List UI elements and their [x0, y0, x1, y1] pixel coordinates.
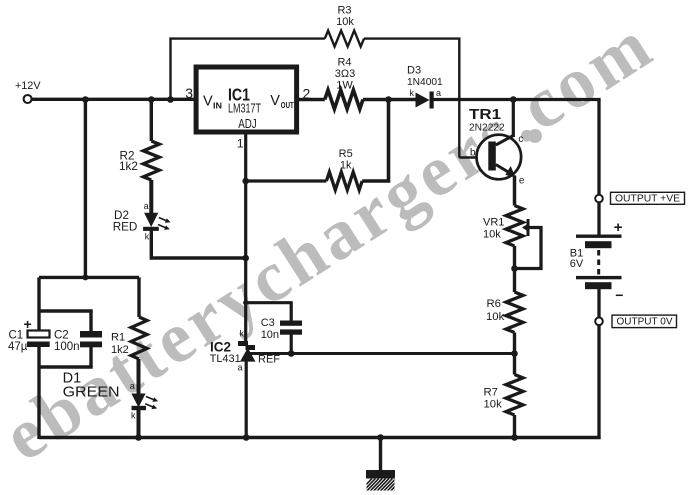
diode D3 1N4001 — [416, 93, 430, 108]
svg-text:R3: R3 — [337, 5, 351, 17]
wire C3 bottom lead — [290, 334, 293, 354]
svg-text:1W: 1W — [336, 80, 353, 92]
wire VR1 to R6 — [513, 246, 516, 292]
svg-text:1k2: 1k2 — [111, 344, 129, 356]
wire IC2 anode to bottom rail — [245, 361, 248, 439]
wire VR1 wiper loop — [515, 228, 542, 269]
terminal OUTPUT +VE — [595, 195, 603, 203]
resistor R5 1k — [326, 172, 362, 190]
LED D2 RED — [144, 213, 158, 227]
battery B1 6V — [576, 235, 622, 238]
wire R2 top lead — [150, 100, 153, 142]
svg-text:1k2: 1k2 — [119, 160, 138, 173]
wire R5 row — [246, 179, 327, 182]
wire C2 top lead — [89, 311, 92, 332]
wire right rail: +VE terminal to battery — [597, 203, 600, 236]
svg-text:e: e — [519, 176, 525, 187]
svg-text:C1: C1 — [9, 330, 24, 342]
resistor R6 10k — [506, 292, 523, 333]
svg-text:IN: IN — [213, 102, 222, 111]
capacitor C1 47u electrolytic — [28, 331, 50, 338]
wire D3 to right rail corner — [434, 100, 600, 195]
svg-text:R7: R7 — [484, 387, 498, 399]
node: IC2 anode to bottom rail — [243, 434, 250, 441]
wire R3 branch: up, across, down to TR1 base — [171, 39, 325, 100]
svg-text:a: a — [130, 381, 135, 391]
svg-text:TR1: TR1 — [469, 106, 501, 123]
IC1 LM317T box — [196, 67, 297, 132]
node: REF to R6/R7 — [511, 350, 518, 357]
svg-text:k: k — [131, 411, 136, 421]
svg-text:1k: 1k — [340, 160, 352, 172]
LED D1 GREEN — [131, 394, 145, 408]
wire bottom rail — [39, 436, 601, 439]
node: D1 to bottom rail — [135, 434, 142, 441]
wire R5 right and up to R4/D3 junction — [362, 100, 388, 182]
svg-text:1: 1 — [237, 137, 244, 151]
node: collector to output rail — [510, 96, 517, 103]
svg-text:V: V — [203, 94, 213, 110]
svg-text:10n: 10n — [261, 329, 279, 341]
svg-text:R5: R5 — [339, 148, 353, 160]
svg-text:D3: D3 — [407, 65, 421, 77]
wire C3 top loop — [246, 303, 292, 321]
svg-text:b: b — [470, 148, 476, 159]
resistor R3 10k — [325, 31, 364, 47]
svg-text:GREEN: GREEN — [63, 384, 120, 401]
svg-text:TL431: TL431 — [210, 353, 241, 365]
wire C1-C2 bottom bar — [39, 365, 93, 368]
svg-text:2N2222: 2N2222 — [469, 123, 505, 134]
svg-text:ADJ: ADJ — [238, 117, 257, 131]
wire IC1 ADJ vertical — [244, 132, 247, 342]
svg-text:c: c — [518, 134, 523, 145]
svg-text:+: + — [24, 316, 32, 332]
svg-text:10k: 10k — [486, 311, 505, 323]
node: R4/D3 to R5 — [385, 96, 392, 103]
wire left vertical lower (C1 to bottom rail) — [37, 347, 40, 440]
resistor R7 10k — [506, 375, 523, 416]
wire VOUT to R4 — [297, 98, 325, 101]
wire battery bottom to 0V terminal — [597, 289, 600, 318]
node: rail to C1/C2/R1 feed — [82, 96, 89, 103]
svg-text:k: k — [145, 232, 150, 242]
resistor R2 1k2 — [143, 141, 159, 180]
wire TR1 base horizontal — [459, 156, 488, 159]
VR1 wiper arrow — [527, 219, 530, 236]
capacitor C3 10n — [280, 321, 302, 326]
wire TR1 collector vertical — [512, 100, 515, 138]
svg-text:10k: 10k — [336, 16, 354, 28]
watermark ebatterychargers.com — [528, 129, 542, 143]
TR1 collector diagonal — [496, 136, 514, 146]
wire R4 to D3 — [363, 98, 416, 102]
node: ADJ to R5 — [242, 178, 249, 185]
svg-text:C3: C3 — [261, 317, 275, 329]
wire R1 top lead — [137, 277, 140, 317]
wire left feed vertical — [84, 100, 87, 278]
svg-text:a: a — [237, 363, 242, 373]
svg-text:47µ: 47µ — [8, 341, 28, 353]
D2 emission arrows — [158, 218, 167, 229]
node: ground to bottom rail — [377, 434, 384, 441]
node: ADJ to D2 return — [242, 255, 249, 262]
svg-text:2: 2 — [303, 86, 311, 102]
terminal OUTPUT 0V — [595, 318, 603, 326]
svg-text:6V: 6V — [570, 258, 584, 270]
svg-text:10k: 10k — [483, 229, 501, 241]
node: rail to R2 — [148, 96, 155, 103]
svg-text:k: k — [240, 329, 245, 339]
TR1 emitter diagonal with arrow — [496, 165, 509, 173]
svg-text:V: V — [270, 93, 280, 109]
svg-text:a: a — [436, 88, 441, 98]
wire 0V terminal to bottom rail — [597, 325, 600, 439]
wire ground stub — [379, 438, 382, 471]
D1 emission arrows — [145, 397, 154, 408]
svg-text:1N4001: 1N4001 — [407, 77, 443, 88]
wire R2 to D2 — [149, 180, 153, 214]
svg-text:+: + — [614, 219, 623, 236]
IC2 TL431 — [238, 341, 248, 346]
terminal +12V — [24, 95, 32, 103]
node: ADJ to C3 loop — [243, 300, 248, 305]
wire +12V rail — [32, 98, 196, 101]
svg-text:C2: C2 — [54, 330, 69, 342]
svg-text:OUTPUT +VE: OUTPUT +VE — [615, 193, 680, 205]
svg-text:R4: R4 — [337, 57, 351, 69]
svg-text:REF: REF — [258, 354, 280, 366]
node: feed to network top — [82, 274, 88, 280]
resistor R4 3R3 1W — [325, 90, 363, 109]
wire R1 to D1 — [137, 359, 141, 394]
svg-text:R6: R6 — [487, 298, 501, 310]
capacitor C2 100n — [80, 331, 102, 338]
wire C1-C2 top bar — [39, 309, 93, 312]
svg-text:3: 3 — [185, 85, 193, 101]
svg-text:OUT: OUT — [281, 101, 294, 110]
ground symbol — [366, 470, 395, 479]
wire D2 cathode down and right to ADJ line — [151, 229, 245, 258]
svg-text:a: a — [144, 201, 149, 211]
potentiometer VR1 10k — [506, 206, 523, 247]
wire D1 cathode to bottom rail — [137, 409, 141, 439]
svg-text:+12V: +12V — [15, 80, 41, 92]
wire top horizontal of C1/C2/R1 network — [39, 276, 139, 279]
svg-text:10k: 10k — [484, 398, 503, 410]
svg-text:−: − — [615, 287, 623, 303]
svg-text:LM317T: LM317T — [228, 101, 261, 115]
wire R7 bottom to bottom rail — [513, 415, 516, 439]
svg-text:100n: 100n — [54, 341, 80, 353]
svg-text:VR1: VR1 — [483, 217, 504, 229]
node: rail to R3 — [167, 96, 174, 103]
node: R7 to bottom rail — [511, 434, 518, 441]
resistor R1 1k2 — [131, 317, 147, 359]
svg-text:OUTPUT 0V: OUTPUT 0V — [617, 316, 673, 328]
wire R6 bottom to R7 top — [513, 333, 516, 375]
wire TR1 emitter vertical to VR1 — [513, 176, 517, 206]
wire REF line to R6/R7 junction — [249, 352, 515, 355]
transistor TR1 2N2222 — [477, 135, 522, 180]
node: VR1 wiper loop bottom — [511, 265, 518, 272]
svg-text:R1: R1 — [111, 332, 125, 344]
wire C2 bottom lead — [89, 347, 92, 368]
wire left vertical upper (to C1) — [37, 277, 40, 331]
svg-text:3Ω3: 3Ω3 — [335, 68, 355, 80]
svg-text:RED: RED — [113, 220, 138, 233]
svg-text:k: k — [410, 88, 415, 98]
node: C3 to REF line — [288, 350, 295, 357]
